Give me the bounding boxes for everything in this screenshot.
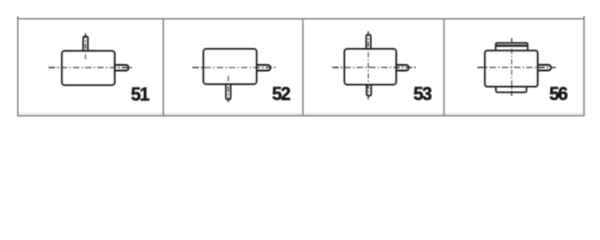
table frame	[18, 16, 584, 116]
panel 51: top input shaft	[83, 36, 88, 51]
divider 2	[302, 19, 304, 116]
panel 53: top input shaft	[366, 34, 371, 49]
svg-text:51: 51	[131, 85, 150, 105]
panel 51: vertical centerline	[85, 33, 87, 59]
svg-text:56: 56	[549, 84, 568, 104]
panel 51: output shaft right	[115, 65, 129, 71]
divider 3	[443, 19, 445, 116]
panel 53: vertical centerline	[367, 31, 369, 101]
panel 56: top cap	[496, 43, 528, 50]
panel 53: output shaft right	[396, 65, 409, 71]
panel 56: horizontal centerline	[477, 66, 556, 68]
panel 56: vertical centerline	[511, 38, 513, 97]
panel 56: output shaft right	[538, 65, 551, 71]
panel 53: gearbox body	[345, 49, 397, 85]
frame corner tick right	[583, 16, 585, 19]
frame corner tick left	[17, 16, 19, 19]
panel 52: bottom input shaft	[226, 84, 231, 100]
panel 52: gearbox body	[204, 49, 257, 84]
panel 51: horizontal centerline	[49, 67, 134, 69]
panel 51: gearbox body	[62, 51, 115, 85]
panel 56: bottom cap	[496, 87, 527, 92]
faint scan band above bottom border	[19, 112, 584, 115]
svg-text:53: 53	[413, 84, 432, 104]
panel 56: motor body	[485, 51, 538, 87]
svg-text:52: 52	[272, 84, 291, 104]
divider 1	[162, 19, 164, 116]
panel 52: output shaft right	[257, 65, 271, 71]
panel 53: bottom input shaft	[367, 84, 372, 96]
panel 52: horizontal centerline	[192, 67, 276, 69]
panel 53: horizontal centerline	[332, 66, 416, 68]
panel 52: vertical centerline	[227, 76, 229, 103]
panel 56: top cap inner line	[496, 45, 527, 47]
